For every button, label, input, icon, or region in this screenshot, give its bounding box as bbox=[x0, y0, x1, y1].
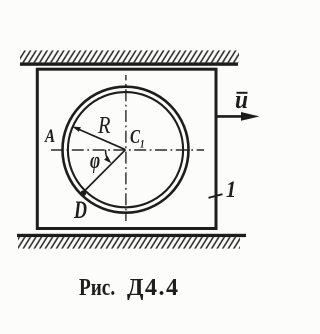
label D bbox=[74, 197, 87, 225]
label C1 bbox=[130, 126, 145, 152]
label A bbox=[45, 126, 55, 148]
top wall line bbox=[20, 62, 238, 65]
plate 1 (square outline) bbox=[37, 69, 216, 228]
bottom wall line bbox=[17, 234, 246, 237]
caption word "Ris." bbox=[79, 275, 115, 302]
circular channel inner circle bbox=[68, 92, 183, 207]
radius line C1-D bbox=[85, 150, 126, 191]
velocity u arrow bbox=[218, 112, 260, 121]
angle phi arc with arrowhead bbox=[104, 150, 111, 164]
center line vertical bbox=[125, 75, 127, 221]
leader line to label 1 bbox=[209, 194, 223, 198]
label R bbox=[98, 113, 110, 140]
center line horizontal bbox=[51, 149, 204, 151]
top wall hatching bbox=[20, 50, 239, 62]
label 1 (plate) bbox=[226, 177, 236, 203]
overline of vector u label bbox=[237, 92, 248, 94]
label u (velocity) bbox=[235, 85, 248, 115]
radius R arrow bbox=[72, 126, 126, 149]
point D dot bbox=[80, 190, 86, 196]
label phi bbox=[90, 148, 100, 175]
caption word "D4.4" bbox=[127, 275, 180, 302]
bottom wall hatching bbox=[18, 237, 240, 249]
circular channel outer circle bbox=[63, 87, 189, 213]
